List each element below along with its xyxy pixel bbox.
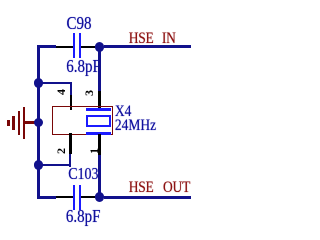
pin 1 of X4 (black) [98,134,100,155]
capacitor C103 pin 2 stub (right, black) [81,196,95,198]
wire: branch to pin 4 (vertical) [70,82,73,96]
capacitor C98 pin 1 stub (left, black) [56,46,73,48]
junction dot: pin 4 branch on bus [34,78,44,88]
pin 3 of X4 (black) [98,91,100,109]
junction dot: pin 2 branch on bus [34,160,44,170]
capacitor C98 right plate [79,33,82,58]
ground symbol: bar 1 (tallest) [23,107,26,139]
label X4 [115,103,132,119]
net label HSE IN [129,30,154,46]
label C98 [67,16,92,34]
value label 6.8pF (top) [66,59,101,77]
junction dot: HSE OUT node [95,192,105,202]
pin number 1 [88,145,100,157]
crystal top electrode plate [86,108,111,110]
wire: left vertical bus [37,45,40,198]
ground symbol: bar 2 [18,111,21,135]
capacitor C98 left plate [73,33,76,58]
pin number 3 [83,87,95,99]
ground symbol: bar 4 (shortest) [7,120,10,126]
pin number 4 [55,86,67,98]
capacitor C103 right plate [79,185,82,210]
junction dot: HSE IN node [95,42,105,52]
pin 2 of X4 (black) [69,133,71,154]
wire: top net segment from bus to C98 [37,45,56,48]
wire: pin 2 vertical [69,154,72,167]
pin 4 of X4 (black) [70,95,72,110]
crystal quartz body [86,115,111,127]
wire: HSE OUT net line to the right [104,196,191,199]
wire: pin 1 vertical to HSE OUT node [98,155,101,193]
value label 6.8pF (bottom) [66,209,101,227]
pin number 2 [55,145,67,157]
wire: HSE IN net line to the right [104,45,191,48]
wire: pin 2 branch horizontal to bus [37,164,71,167]
crystal X4 component body rectangle [52,106,113,135]
wire: pin 3 vertical from HSE IN node [98,49,101,91]
ground symbol: bar 3 [12,116,15,131]
junction dot: ground node [34,118,44,128]
capacitor C103 pin 1 stub (left, black) [56,196,73,198]
capacitor C103 left plate [73,185,76,210]
label C103 [68,167,98,184]
wire: branch to pin 4 (horizontal) [37,82,72,85]
capacitor C98 pin 2 stub (right, black) [81,46,95,48]
ground symbol: horizontal stub [24,121,39,124]
net label HSE OUT [129,179,154,195]
crystal bottom electrode plate [86,132,111,134]
wire: bottom net segment from bus to C103 [37,196,56,199]
value label 24MHz [115,117,156,133]
